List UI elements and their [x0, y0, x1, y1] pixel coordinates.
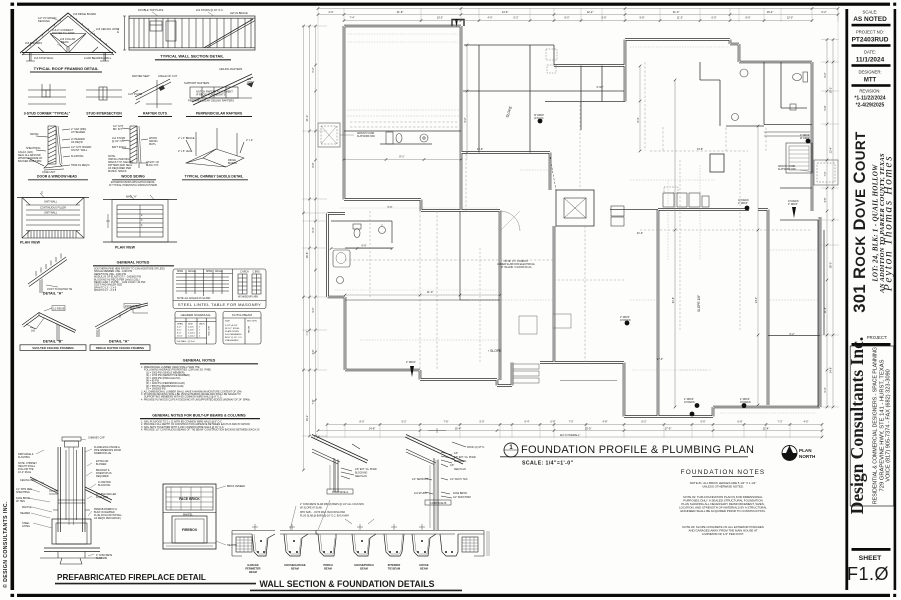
svg-text:FACE BRICK: FACE BRICK [179, 497, 200, 501]
svg-text:HOUSE/GARAGE: HOUSE/GARAGE [284, 563, 306, 567]
svg-text:© DESIGN CONSULTANTS INC.: © DESIGN CONSULTANTS INC. [2, 501, 9, 588]
svg-text:6'-0": 6'-0" [712, 16, 717, 19]
svg-text:BOLT @ 16" O.C.: BOLT @ 16" O.C. [225, 337, 243, 339]
truss labels [25, 12, 120, 60]
svg-text:FLATWORK PAD: FLATWORK PAD [357, 135, 375, 138]
svg-text:5'-0": 5'-0" [480, 420, 485, 423]
svg-text:UNIT WALL: UNIT WALL [44, 201, 58, 204]
svg-text:MTT: MTT [864, 78, 877, 84]
title block: divider above project [852, 343, 891, 346]
svg-text:2x4 WALL: (2) 2x4: 2x4 WALL: (2) 2x4 [177, 340, 196, 343]
svg-text:SEE PLAN: SEE PLAN [454, 468, 466, 471]
detail A (ceiling joist) [28, 254, 67, 294]
svg-text:LET-IN BRACE: LET-IN BRACE [230, 11, 248, 15]
svg-text:9'-0": 9'-0" [312, 307, 315, 312]
svg-text:5'-6": 5'-6" [602, 16, 607, 19]
svg-text:5'-4": 5'-4" [824, 387, 827, 392]
svg-text:PORCH: PORCH [323, 563, 332, 567]
svg-text:2x6 RAFTER: 2x6 RAFTER [125, 305, 139, 308]
plan: chimney flatwork pad left [318, 123, 354, 147]
svg-text:SPAN: SPAN [177, 323, 183, 326]
svg-text:RAFTER CUTS: RAFTER CUTS [143, 112, 168, 116]
svg-text:7'-8": 7'-8" [312, 399, 315, 404]
plan view right (beam build-up) [103, 195, 177, 242]
svg-text:2-2x6: 2-2x6 [188, 327, 194, 329]
svg-text:21'-4": 21'-4" [763, 426, 770, 430]
svg-text:AIR/UNIT COND.: AIR/UNIT COND. [778, 165, 796, 168]
svg-text:*2-4/29/2025: *2-4/29/2025 [856, 103, 885, 109]
svg-text:EXTERIOR FINISH APPLICATION DE: EXTERIOR FINISH APPLICATION DETAIL [111, 181, 156, 184]
svg-text:AT DRAIN: AT DRAIN [738, 199, 749, 202]
svg-text:W/ MASONRY ABV: W/ MASONRY ABV [238, 296, 259, 299]
plan: stair treads [513, 364, 539, 383]
svg-text:17'-0": 17'-0" [657, 358, 663, 361]
svg-text:6'-4": 6'-4" [312, 227, 315, 232]
svg-text:INTERIOR: INTERIOR [388, 563, 401, 567]
stud intersection detail [86, 87, 122, 100]
svg-text:16'-8": 16'-8" [305, 252, 309, 259]
svg-text:ON INT. WALL: ON INT. WALL [71, 149, 88, 152]
svg-text:PERIMETER: PERIMETER [245, 567, 260, 571]
svg-text:F1.Ø: F1.Ø [847, 564, 889, 584]
plan: right rear interior walls [610, 188, 824, 407]
cornice A detail [311, 435, 368, 493]
svg-text:SPAN TO 17' - 2 X 8: SPAN TO 17' - 2 X 8 [94, 289, 117, 292]
truss title [34, 66, 99, 71]
svg-text:VOICE (817) 905-7374 - FAX (68: VOICE (817) 905-7374 - FAX (682) 323-309… [886, 369, 892, 482]
svg-text:ANGLE OF CUT: ANGLE OF CUT [158, 74, 178, 78]
svg-text:3-STUD CORNER "TYPICAL": 3-STUD CORNER "TYPICAL" [24, 112, 71, 116]
svg-text:11'-2": 11'-2" [677, 16, 683, 19]
svg-text:21'-0": 21'-0" [305, 115, 309, 122]
plan north symbol [782, 446, 797, 461]
title block right bar [894, 9, 897, 590]
svg-text:4'-0": 4'-0" [488, 16, 493, 19]
svg-text:13'-2": 13'-2" [305, 415, 309, 422]
svg-text:5'-6": 5'-6" [701, 420, 706, 423]
svg-text:A MINIMUM OF 1/4" PER FOOT.: A MINIMUM OF 1/4" PER FOOT. [702, 532, 744, 536]
svg-text:12'-4": 12'-4" [829, 147, 833, 154]
svg-text:IF REQ'D FOR HEIGHTS: IF REQ'D FOR HEIGHTS [196, 93, 226, 97]
svg-text:AS REQ'D PER MANUF): AS REQ'D PER MANUF) [94, 517, 121, 520]
svg-text:4'-0": 4'-0" [177, 327, 182, 329]
svg-text:PROJECT:: PROJECT: [867, 335, 887, 340]
porch beam [316, 531, 455, 557]
svg-text:2" DROP: 2" DROP [740, 399, 750, 401]
svg-text:10'-2" RULE: 10'-2" RULE [18, 471, 32, 474]
svg-text:SINGLE RAFTER CEILING FRAMING: SINGLE RAFTER CEILING FRAMING [96, 346, 144, 350]
svg-text:Design Consultants Inc.: Design Consultants Inc. [847, 337, 867, 514]
face brick elevation [163, 484, 216, 549]
svg-text:3-1/2"x9-1/4": 3-1/2"x9-1/4" [225, 325, 238, 327]
svg-text:SEE PLAN: SEE PLAN [355, 475, 367, 478]
svg-text:9'-3/8": 9'-3/8" [596, 86, 603, 89]
svg-text:SIZE: SIZE [188, 324, 193, 326]
svg-text:14'-8": 14'-8" [369, 426, 376, 430]
svg-text:ANGLE: ANGLE [188, 270, 196, 273]
svg-text:BACKER ROD TRIM: BACKER ROD TRIM [18, 160, 41, 163]
svg-text:SLOPE 1/8": SLOPE 1/8" [697, 295, 701, 312]
border frame left bar [11, 9, 15, 590]
svg-text:6'-8": 6'-8" [738, 420, 743, 423]
svg-text:15'-4": 15'-4" [455, 426, 462, 430]
fireplace title [57, 573, 206, 582]
svg-text:PLAN VIEW: PLAN VIEW [20, 241, 41, 245]
svg-text:W' DROP: W' DROP [534, 115, 544, 117]
svg-text:VAULTED CEILING FRAMING: VAULTED CEILING FRAMING [32, 346, 74, 350]
svg-text:DETAIL "A": DETAIL "A" [109, 340, 129, 344]
wall section title [260, 579, 435, 589]
svg-text:2-2x10: 2-2x10 [188, 333, 195, 335]
svg-text:WOOD SIDING: WOOD SIDING [121, 175, 145, 179]
svg-text:4. PROVIDE 1/2" CONTINUOUS BEA: 4. PROVIDE 1/2" CONTINUOUS BEAMS OF "TIE… [141, 429, 260, 432]
svg-text:UNLESS OTHERWISE NOTED.: UNLESS OTHERWISE NOTED. [702, 485, 744, 489]
svg-text:JOIST: JOIST [247, 80, 255, 84]
house/garage beam [280, 524, 336, 556]
svg-text:17'-9": 17'-9" [665, 426, 672, 430]
svg-text:DESIGNER:: DESIGNER: [858, 70, 881, 75]
roof truss detail [20, 13, 116, 61]
title block: design consultants box [850, 346, 893, 506]
svg-text:FIREBOX/FLUE: FIREBOX/FLUE [94, 452, 112, 455]
plan: great room furniture pads [519, 314, 571, 334]
svg-text:BEAM: BEAM [249, 570, 257, 574]
plan: center conduit note [497, 259, 536, 269]
svg-text:14'-2": 14'-2" [755, 297, 758, 303]
svg-text:MAT'L: MAT'L [149, 143, 157, 146]
svg-text:12'-0": 12'-0" [787, 16, 793, 19]
plan: extra dimension labels [312, 16, 827, 423]
svg-text:PLATE BTWN: PLATE BTWN [225, 330, 239, 333]
svg-text:SUPPORT RAFTERS: SUPPORT RAFTERS [184, 81, 210, 85]
svg-text:W/ SLOPE AT SLAB: W/ SLOPE AT SLAB [300, 507, 322, 510]
svg-text:TYPICAL WALL SECTION DETAIL: TYPICAL WALL SECTION DETAIL [160, 54, 224, 59]
svg-text:STAGGERED: STAGGERED [225, 339, 239, 342]
title block: designer field [852, 70, 891, 87]
svg-text:3'-6": 3'-6" [824, 197, 827, 202]
svg-text:6'-2": 6'-2" [514, 16, 519, 19]
plan: dimension chains [302, 8, 839, 470]
svg-text:PERPENDICULAR RAFTERS: PERPENDICULAR RAFTERS [196, 112, 243, 116]
svg-text:2-2x12: 2-2x12 [188, 336, 195, 338]
foundation notes [681, 469, 766, 476]
svg-text:WALL "A": WALL "A" [126, 196, 137, 199]
svg-text:SIDING: SIDING [30, 133, 39, 136]
svg-text:11'-8": 11'-8" [824, 307, 827, 313]
border frame bottom-right corner square [893, 594, 896, 597]
svg-text:SPAN: SPAN [177, 270, 183, 273]
svg-text:11/1/2024: 11/1/2024 [856, 57, 885, 64]
svg-text:FOUNDATION NOTES: FOUNDATION NOTES [681, 469, 766, 476]
svg-text:12'-6": 12'-6" [477, 148, 483, 151]
svg-text:DECKING: DECKING [38, 19, 50, 23]
svg-text:8'-1": 8'-1" [116, 28, 120, 33]
svg-text:SCALE:: SCALE: [863, 10, 878, 15]
svg-text:TYPICAL CHIMNEY SADDLE DETAIL: TYPICAL CHIMNEY SADDLE DETAIL [185, 175, 244, 179]
svg-text:CEILING KIT: CEILING KIT [20, 479, 34, 482]
svg-text:DETAIL: DETAIL [247, 326, 250, 334]
general notes block 1 [117, 261, 150, 265]
svg-text:LIVE LOAD = 40 PSF: LIVE LOAD = 40 PSF [122, 281, 146, 284]
svg-text:AT DRAIN: AT DRAIN [740, 401, 751, 404]
svg-text:UNIT WALL: UNIT WALL [44, 212, 58, 215]
svg-text:14'-6": 14'-6" [502, 10, 509, 14]
svg-text:ENGINEER SHALL BE ACQUIRED PRI: ENGINEER SHALL BE ACQUIRED PRIOR TO CONS… [680, 509, 765, 513]
svg-text:BEAM: BEAM [291, 567, 299, 571]
title block: revision field [854, 89, 885, 109]
svg-text:PLUS SLAB @ BARS @ 16" O.C. EA: PLUS SLAB @ BARS @ 16" O.C. EACH WAY [300, 515, 350, 518]
svg-text:10'-2": 10'-2" [437, 16, 443, 19]
svg-text:PLAN: PLAN [799, 448, 812, 453]
border frame top bar [17, 3, 890, 6]
svg-text:1/2" SETROCK: 1/2" SETROCK [412, 478, 429, 481]
svg-text:AT HEADER: AT HEADER [71, 131, 85, 134]
svg-text:8'-2": 8'-2" [790, 333, 795, 336]
svg-text:11'-0": 11'-0" [427, 290, 433, 294]
house/porch beam [345, 519, 376, 556]
svg-text:CUT PLATE: CUT PLATE [128, 92, 142, 96]
fireplace leaders [28, 439, 96, 556]
svg-text:GENERAL NOTES FOR BUILT-UP BEA: GENERAL NOTES FOR BUILT-UP BEAMS & COLUM… [152, 414, 246, 418]
plan: bath wing interior walls [331, 131, 500, 300]
svg-text:DETAIL "B": DETAIL "B" [43, 340, 63, 344]
svg-text:FIREBOX: FIREBOX [182, 528, 198, 532]
svg-text:1/8" EXT. VA. PLWD.: 1/8" EXT. VA. PLWD. [454, 456, 477, 459]
title block: divider above sheet [852, 548, 891, 551]
plan: AC flatwork pad right [800, 160, 838, 185]
svg-text:GENERAL NOTES: GENERAL NOTES [117, 261, 150, 265]
svg-text:RAFTER TO JOIST: RAFTER TO JOIST [52, 31, 75, 35]
svg-text:SIZE: SIZE [225, 321, 230, 323]
cornice B detail [405, 428, 466, 530]
perpendicular rafters detail [190, 74, 253, 105]
svg-text:WALL SECTION & FOUNDATION DETA: WALL SECTION & FOUNDATION DETAILS [260, 579, 435, 589]
svg-text:BLOCKING: BLOCKING [98, 484, 110, 487]
svg-text:SHEATHING: SHEATHING [16, 491, 30, 494]
rafter cuts detail [133, 79, 172, 108]
plan: pad labels [357, 115, 810, 404]
svg-text:18'-0": 18'-0" [829, 262, 833, 269]
border frame top-left corner square [11, 3, 15, 6]
steel lintel table for masonry [173, 269, 266, 309]
svg-text:CORNICE B: CORNICE B [430, 501, 447, 505]
svg-text:MANTLE: MANTLE [22, 506, 32, 509]
svg-text:DOUBLE TOP PLATE: DOUBLE TOP PLATE [138, 8, 164, 12]
svg-text:AT ISLAND / FLOOR PLUG: AT ISLAND / FLOOR PLUG [501, 266, 532, 269]
svg-text:1/2" ANCH. TES: 1/2" ANCH. TES [450, 478, 468, 481]
plan: garage top-right bump [452, 20, 464, 27]
svg-text:SCALE: 1/4"=1'-0": SCALE: 1/4"=1'-0" [522, 461, 574, 467]
svg-text:8'-1": 8'-1" [399, 155, 404, 159]
svg-text:BEAM: BEAM [360, 567, 368, 571]
svg-text:BD. INT.: BD. INT. [113, 128, 123, 131]
svg-text:Peyton Thomas Homes: Peyton Thomas Homes [883, 155, 895, 292]
title block left bar [845, 9, 848, 590]
svg-text:7'-4": 7'-4" [305, 330, 309, 335]
svg-text:AIR/UNIT COND.: AIR/UNIT COND. [357, 132, 375, 135]
svg-text:16'-4": 16'-4" [767, 10, 774, 14]
svg-text:AT TYPICAL HORIZONTAL SIDING/S: AT TYPICAL HORIZONTAL SIDING/SYSTEMS [109, 184, 158, 187]
svg-text:10'-0": 10'-0" [177, 336, 183, 338]
title block: scale field [852, 10, 891, 27]
svg-text:AT DRAIN: AT DRAIN [684, 401, 695, 404]
svg-text:HOUSE: HOUSE [419, 563, 428, 567]
svg-text:9'-2": 9'-2" [464, 117, 467, 122]
svg-text:SPAN: SPAN [206, 270, 212, 273]
svg-text:HEADER: HEADER [20, 512, 30, 515]
svg-text:DETAIL "A": DETAIL "A" [43, 292, 63, 296]
cornice A soffit note [300, 503, 364, 518]
svg-text:21'-0": 21'-0" [673, 10, 680, 14]
svg-text:2x6 RIDGE BOARD: 2x6 RIDGE BOARD [73, 12, 96, 16]
svg-text:PERPENDICULAR CEILING RAFTERS: PERPENDICULAR CEILING RAFTERS [188, 99, 234, 103]
svg-text:7'-2": 7'-2" [778, 420, 783, 423]
svg-text:LOAD BEARING WALL: LOAD BEARING WALL [84, 56, 112, 60]
svg-text:4'-8": 4'-8" [603, 420, 608, 423]
svg-text:2" DROP: 2" DROP [788, 204, 798, 206]
svg-text:DOOR & WINDOW HEAD: DOOR & WINDOW HEAD [37, 175, 77, 179]
svg-text:C ARCH: C ARCH [240, 271, 249, 274]
svg-text:8'-0": 8'-0" [565, 16, 570, 19]
svg-text:12'-2": 12'-2" [587, 10, 594, 14]
plan: kitchen and master bath interior walls [700, 62, 812, 126]
svg-text:BEAM: BEAM [61, 40, 68, 44]
svg-text:FLUE PIPE: FLUE PIPE [96, 496, 109, 499]
plan: slope labels [488, 105, 701, 353]
svg-text:2" DROP: 2" DROP [406, 362, 416, 364]
svg-text:(4 PLCS): (4 PLCS) [534, 118, 544, 120]
svg-text:7'-6": 7'-6" [444, 420, 449, 423]
svg-text:8'-4": 8'-4" [637, 117, 640, 122]
plan: thin porch edge lines lower [560, 380, 617, 382]
svg-text:AS NOTED: AS NOTED [853, 16, 887, 23]
svg-text:1/2 RIDGE: 1/2 RIDGE [53, 308, 65, 311]
svg-text:RAFTER SEAT: RAFTER SEAT [132, 74, 150, 78]
svg-text:ANGLE: ANGLE [215, 270, 223, 273]
svg-text:CEILING RAFTERS: CEILING RAFTERS [219, 67, 242, 71]
svg-text:7'-0": 7'-0" [824, 171, 827, 176]
plan: utility appliances [611, 187, 709, 226]
svg-text:2x4 STUDS @ 16" O.C.: 2x4 STUDS @ 16" O.C. [196, 8, 224, 12]
svg-text:BEAM: BEAM [324, 567, 332, 571]
foundation beam sections: garage perimeter beam [232, 524, 275, 556]
svg-text:1/2" ROCKTRIM: 1/2" ROCKTRIM [453, 496, 471, 499]
svg-text:2" x 4": 2" x 4" [246, 139, 253, 142]
svg-text:4. PROVIDE PLYWOOD CLIPS AT DE: 4. PROVIDE PLYWOOD CLIPS AT DECKING AT U… [141, 398, 250, 401]
svg-text:9'-6": 9'-6" [361, 244, 366, 248]
svg-text:BLOWER: BLOWER [96, 463, 107, 466]
plan: kitchen island [710, 154, 724, 172]
svg-text:BLDG TYP.: BLDG TYP. [146, 164, 159, 167]
wall section detail [123, 16, 255, 50]
svg-text:4'-6": 4'-6" [312, 349, 315, 354]
svg-text:@ 16" O.C.: @ 16" O.C. [112, 140, 125, 143]
svg-text:TYPICAL ROOF FRAMING DETAIL: TYPICAL ROOF FRAMING DETAIL [34, 66, 99, 71]
wood siding detail [122, 126, 148, 168]
svg-text:TRIM AS REQ'D: TRIM AS REQ'D [71, 164, 90, 167]
plan: dimension tick marks [302, 7, 839, 471]
svg-text:ROOF (A) STYL: ROOF (A) STYL [467, 446, 485, 449]
svg-text:PT2403RUD: PT2403RUD [852, 37, 889, 44]
svg-text:21'-8": 21'-8" [397, 10, 404, 14]
plan: porch and interior medium walls [463, 45, 625, 153]
svg-text:8'-0": 8'-0" [360, 420, 365, 423]
svg-text:7'-0": 7'-0" [569, 420, 574, 423]
svg-text:FLATWORK PAD: FLATWORK PAD [778, 168, 796, 171]
plan: cleanout dots [410, 19, 810, 416]
flitch beam table [223, 312, 261, 345]
interior tie beam [384, 524, 404, 556]
svg-text:BRICK VENEER: BRICK VENEER [227, 485, 245, 488]
svg-text:FLITCH BEAM: FLITCH BEAM [232, 313, 252, 317]
svg-text:PLAN VIEW: PLAN VIEW [115, 246, 136, 250]
svg-text:9'-2": 9'-2" [402, 420, 407, 423]
svg-text:BATT INSUL: BATT INSUL [112, 146, 127, 149]
svg-text:W/ 1/2" STEEL: W/ 1/2" STEEL [225, 328, 240, 330]
svg-text:HOUSE/PORCH: HOUSE/PORCH [354, 563, 373, 567]
typical chimney saddle detail [186, 128, 244, 167]
svg-text:AT DRAIN: AT DRAIN [620, 319, 631, 322]
svg-text:2x6: 2x6 [31, 330, 36, 333]
plan: fireplace box at great room [550, 157, 594, 226]
title block: date field [852, 50, 891, 67]
svg-text:CORNICE A: CORNICE A [332, 490, 349, 494]
general notes for built-up beams and columns [152, 414, 246, 418]
svg-text:2" x 4" BRACE: 2" x 4" BRACE [178, 137, 195, 140]
fireplace labels right [88, 437, 123, 561]
svg-text:‹ SLOPE: ‹ SLOPE [488, 349, 502, 353]
fireplace labels left [16, 453, 37, 528]
prefabricated fireplace detail: chimney section [30, 437, 112, 564]
svg-text:5'-8": 5'-8" [824, 105, 827, 110]
svg-text:1/8": 1/8" [450, 464, 454, 467]
svg-text:BEAM: BEAM [420, 567, 428, 571]
plan: dashed utility lines [345, 62, 766, 370]
svg-text:SECTION: SECTION [207, 326, 209, 336]
svg-text:HEADER SCHEDULE: HEADER SCHEDULE [181, 313, 211, 317]
svg-text:DATE:: DATE: [864, 50, 876, 55]
svg-text:6'-8": 6'-8" [550, 420, 555, 424]
svg-text:SECTION: SECTION [247, 321, 257, 323]
svg-text:FLASHING: FLASHING [18, 456, 30, 459]
svg-text:TIE BEAM: TIE BEAM [388, 567, 400, 571]
svg-text:GENERAL NOTES: GENERAL NOTES [183, 359, 216, 363]
svg-text:1/8": 1/8" [454, 452, 458, 455]
svg-text:5'-6": 5'-6" [388, 206, 393, 209]
svg-text:13'-0": 13'-0" [585, 426, 592, 430]
svg-text:9'-8": 9'-8" [640, 16, 645, 19]
detail A2 (single rafter ceiling framing) [95, 303, 148, 337]
border frame bottom bar [17, 594, 890, 597]
svg-text:AT DRAIN: AT DRAIN [788, 200, 799, 203]
3-stud corner detail [28, 84, 66, 104]
svg-text:112'-6 OVERALL": 112'-6 OVERALL" [560, 433, 581, 437]
garage perimeter beam right [440, 531, 489, 557]
plan: extra interior details [334, 34, 816, 413]
svg-text:2x10 MEMBERS: 2x10 MEMBERS [225, 334, 242, 336]
svg-text:FACE BRICK: FACE BRICK [453, 492, 468, 495]
svg-text:8'-6": 8'-6" [746, 16, 751, 19]
svg-text:FLASHING: FLASHING [71, 155, 84, 158]
svg-text:CHIMNEY CAP: CHIMNEY CAP [88, 437, 105, 440]
svg-text:10'-2": 10'-2" [829, 87, 833, 94]
svg-text:8'-8": 8'-8" [312, 162, 315, 167]
svg-text:PREFABRICATED FIREPLACE DETAIL: PREFABRICATED FIREPLACE DETAIL [57, 573, 206, 582]
svg-text:8'-2": 8'-2" [642, 420, 647, 423]
svg-text:NORTH: NORTH [799, 454, 816, 459]
svg-text:2" x 6" LEG: 2" x 6" LEG [178, 150, 191, 153]
title block: project no field [852, 30, 891, 47]
